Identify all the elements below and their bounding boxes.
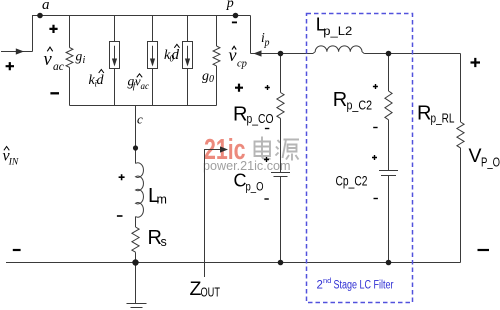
capacitor Cp_O: [271, 173, 290, 177]
svg-text:v: v: [44, 50, 53, 70]
watermark chinese char dian: [255, 137, 271, 159]
arrowhead Zout: [220, 146, 228, 152]
svg-text:P_O: P_O: [481, 156, 500, 170]
plus Rp_CO top: [265, 85, 270, 90]
wire drop to box ki: [114, 16, 116, 42]
resistor Rp_CO: [277, 93, 284, 119]
svg-text:IN: IN: [8, 158, 19, 168]
resistor Rp_C2: [385, 91, 392, 120]
svg-text:p_O: p_O: [246, 180, 264, 194]
minus Rp_CO: [265, 128, 269, 130]
Zout indicator line: [205, 150, 222, 278]
svg-text:p: p: [226, 0, 234, 11]
wire bottom rail: [6, 262, 461, 264]
ground stem: [135, 263, 137, 304]
svg-text:nd: nd: [323, 276, 331, 285]
plus vcp: [235, 84, 243, 92]
resistor g0: [213, 46, 220, 66]
svg-text:R: R: [233, 103, 247, 125]
wire mid rail: [70, 105, 217, 107]
wire box ki to mid rail: [114, 69, 116, 106]
current source box gf: [148, 42, 158, 69]
svg-text:g: g: [76, 49, 83, 64]
arrowhead ip current: [254, 50, 262, 56]
minus Rp_C2: [373, 127, 377, 129]
resistor Rp_RL: [457, 122, 464, 148]
ground bars: [127, 304, 147, 310]
svg-text:s: s: [161, 235, 167, 249]
svg-text:ac: ac: [53, 61, 64, 73]
wire drop to gi: [69, 16, 71, 48]
plus under node a: [49, 25, 57, 33]
node a dot: [37, 13, 43, 19]
svg-text:i: i: [83, 55, 86, 66]
svg-text:d: d: [97, 73, 105, 88]
wire node c drop: [135, 106, 137, 164]
current source box k0: [183, 42, 193, 69]
junction dot Rp_CO top: [278, 51, 284, 57]
wire p corner riser: [250, 16, 252, 54]
svg-text:c: c: [137, 112, 143, 127]
wire Rp_CO to cap: [280, 118, 282, 172]
node p dot: [233, 13, 239, 19]
wire g0 to mid rail: [216, 66, 218, 106]
svg-text:d: d: [172, 47, 180, 63]
plus left input: [6, 62, 14, 70]
svg-text:Stage LC Filter: Stage LC Filter: [334, 280, 394, 292]
wire Cp_C2 to bottom rail: [388, 176, 390, 263]
minus Cp_C2: [374, 198, 378, 200]
junction dot Rp_C2 top: [386, 51, 392, 57]
junction dot Cp_C2 bottom: [386, 260, 392, 266]
wire Cp_O to bottom rail: [280, 177, 282, 263]
svg-text:0: 0: [209, 74, 214, 85]
wire box k0 to mid rail: [187, 69, 189, 106]
wire drop to g0: [216, 16, 218, 47]
svg-text:R: R: [417, 102, 431, 124]
minus vac: [50, 92, 59, 94]
minus Cp_O: [264, 198, 268, 200]
svg-text:OUT: OUT: [201, 286, 221, 300]
current source box ki: [110, 42, 120, 69]
svg-text:V: V: [469, 145, 482, 167]
wire drop to box gf: [152, 16, 154, 42]
svg-text:Cp_C2: Cp_C2: [336, 173, 368, 188]
svg-text:p: p: [264, 38, 270, 49]
wire Rp_C2 to cap: [388, 120, 390, 171]
wire Rs to bottom rail: [135, 252, 137, 262]
inductor Lm: [136, 163, 144, 217]
minus bottom left: [13, 249, 21, 251]
plus Rp_C2 top: [373, 84, 378, 89]
svg-text:ac: ac: [141, 81, 150, 91]
wire gi to mid rail: [69, 67, 71, 105]
plus top right: [471, 58, 481, 67]
minus right: [478, 249, 490, 251]
svg-text:a: a: [42, 0, 50, 13]
node c dot: [133, 145, 138, 150]
wire Lp_L2 to right corner: [364, 53, 460, 55]
wire p to node dot: [251, 53, 314, 55]
wire RpC2 drop: [388, 54, 390, 92]
svg-text:p_C2: p_C2: [347, 99, 373, 113]
wire RpRL drop: [460, 54, 462, 123]
inductor Lp_L2: [313, 46, 364, 54]
wire drop to box k0: [187, 16, 189, 42]
wire left riser and top rail a-p: [33, 16, 251, 52]
wire input shaft: [1, 51, 33, 53]
wire Rp_RL to bottom rail: [460, 148, 462, 263]
junction dot ground: [132, 259, 138, 265]
svg-text:p_RL: p_RL: [431, 111, 455, 125]
label 2nd stage LC filter: [317, 276, 394, 291]
arrowhead input: [16, 48, 24, 54]
resistor gi: [66, 48, 73, 68]
svg-text:power.21ic.com: power.21ic.com: [203, 158, 291, 173]
svg-text:2: 2: [317, 280, 323, 292]
svg-text:p_CO: p_CO: [247, 112, 274, 126]
capacitor Cp_C2: [379, 171, 398, 176]
wire Lm to Rs: [135, 217, 137, 228]
minus Lm: [117, 215, 123, 217]
junction dot Cp_O bottom: [278, 260, 284, 266]
dashed filter box: [307, 14, 413, 303]
wire RpCO drop: [280, 54, 282, 93]
svg-text:cp: cp: [237, 58, 247, 69]
watermark chinese char yuan: [276, 140, 300, 161]
resistor Rs: [132, 227, 139, 252]
plus Cp_C2: [372, 155, 377, 160]
minus at p: [232, 21, 237, 23]
svg-text:g: g: [202, 69, 209, 84]
plus Lm: [119, 174, 125, 180]
svg-text:m: m: [157, 193, 167, 207]
svg-text:R: R: [333, 89, 347, 111]
svg-text:p_L2: p_L2: [323, 24, 352, 38]
plus Cp_O: [264, 157, 269, 162]
wire box gf to mid rail: [152, 69, 154, 106]
